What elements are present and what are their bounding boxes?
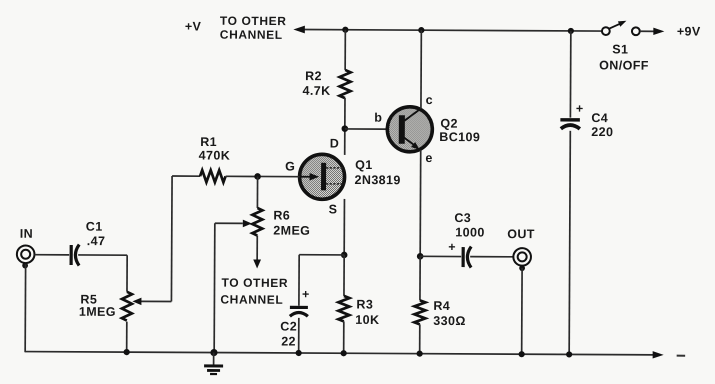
svg-text:C1: C1 [86,220,103,234]
wire: R3 column top [343,255,345,296]
node: rail/R3 [341,350,347,356]
svg-text:22: 22 [281,335,296,349]
svg-text:OUT: OUT [507,227,535,241]
svg-text:2N3819: 2N3819 [355,173,401,187]
wire: C3 to OUT [470,256,513,258]
wire: Q1 source down to junction [343,199,345,255]
wire: R5 wiper riser to gate line [170,176,173,301]
wire: R2 column top [344,30,346,70]
svg-text:R1: R1 [200,135,217,149]
svg-text:4.7K: 4.7K [302,84,330,98]
svg-text:Q1: Q1 [355,158,373,172]
svg-text:.47: .47 [87,234,106,248]
svg-text:R2: R2 [305,69,322,83]
node: source junction [341,252,348,259]
svg-text:+9V: +9V [677,24,701,38]
svg-text:G: G [285,160,295,174]
wire: C1 to R5 corner [78,254,127,256]
svg-text:ON/OFF: ON/OFF [599,58,649,72]
svg-text:+: + [448,240,456,254]
resistor R2 [339,70,350,98]
wire: IN column to bottom rail [24,264,26,352]
transistor Q1 2N3819 [299,154,345,199]
svg-text:c: c [426,93,433,107]
svg-text:S1: S1 [612,42,628,56]
svg-text:R3: R3 [356,297,373,311]
minus mark after bottom arrow [677,355,685,357]
svg-text:330Ω: 330Ω [433,314,466,328]
svg-text:S: S [329,202,338,216]
wire: bottom rail [25,352,655,355]
arrowhead: top rail to other channel (left) [293,26,305,34]
capacitor C4 [560,102,583,129]
node: top rail / Q2 collector junction [418,27,424,33]
svg-text:10K: 10K [355,313,379,327]
node: rail/C2 [296,350,302,356]
wire: source junction left to C2 [299,254,344,256]
svg-text:+: + [576,102,584,116]
wire: R4 to bottom rail [419,324,421,353]
resistor R3 [338,296,349,322]
node: top rail / C4 junction [568,28,574,34]
node: top rail / R2 junction [342,27,348,33]
svg-text:470K: 470K [199,148,231,162]
arrowhead: bottom rail right [653,351,664,358]
node: rail/C4 [566,351,572,357]
svg-text:C2: C2 [280,320,297,334]
wire: R3 to bottom rail [343,321,345,353]
wire: R6 wiper ground column [213,223,216,352]
capacitor C3 [448,240,471,268]
svg-text:CHANNEL: CHANNEL [220,28,283,42]
svg-text:IN: IN [20,227,33,241]
svg-text:C4: C4 [591,111,608,125]
resistor R1 [200,170,226,182]
node: rail/OUT [519,351,525,357]
svg-text:C3: C3 [454,211,471,225]
wire: R6 bottom to arrow [256,235,258,260]
capacitor C2 [290,287,310,316]
node: rail/R4 [417,351,423,357]
wire: base of Q2 [345,128,399,130]
svg-text:2MEG: 2MEG [273,224,310,238]
wire: C4 column top [569,31,571,118]
node: base junction on drain column [342,125,349,132]
svg-text:R6: R6 [273,208,290,222]
wire: top rail from arrow to switch [303,30,602,32]
wire: gate line right segment [226,175,300,177]
wire: emitter junction to R4 [419,256,421,300]
svg-text:TO OTHER: TO OTHER [220,14,287,28]
svg-text:220: 220 [591,125,613,139]
transistor Q2 BC109 [387,107,432,152]
wire: C3 junction to cap [420,255,461,257]
capacitor C1 [71,245,79,266]
node: C3 junction [417,253,424,260]
wire: R6 column top [256,176,258,207]
wire: R2 to Q1 drain [344,98,346,155]
svg-text:1MEG: 1MEG [79,305,116,319]
wire: Q2 emitter column down to C3 junction [419,150,422,256]
wire: OUT column to bottom rail [521,268,523,354]
potentiometer R5 [122,292,172,321]
svg-text:TO OTHER: TO OTHER [221,276,288,290]
wire: R5 to bottom rail [126,322,128,352]
wire: C4 column bottom [569,131,570,355]
wire: R5 column top [126,255,128,292]
wire: IN to C1 [34,254,69,256]
resistor R4 [414,300,425,324]
connector OUT [513,248,531,271]
svg-text:+V: +V [185,19,202,33]
wire: gate line left segment [172,175,200,177]
svg-text:1000: 1000 [455,225,484,239]
svg-text:b: b [374,111,382,125]
svg-text:Q2: Q2 [440,117,458,131]
node: rail/R5 [124,349,130,355]
node: gate junction [254,173,261,180]
wire: switch to +9V arrow [640,30,656,32]
svg-text:BC109: BC109 [439,130,480,144]
svg-text:CHANNEL: CHANNEL [220,292,283,306]
wire: C2 to bottom rail [298,318,300,353]
svg-text:+: + [302,287,310,301]
svg-text:D: D [330,136,340,150]
switch S1 [602,27,610,35]
svg-text:e: e [425,151,432,165]
wire: Q2 collector column [420,30,422,109]
node: rail/ground [210,349,217,356]
connector IN [17,245,35,268]
potentiometer R6 [215,208,263,236]
svg-text:R4: R4 [433,299,450,313]
wire: C2 column upper [298,255,300,306]
arrowhead: to other channel (down) [253,259,261,268]
ground [204,353,223,375]
